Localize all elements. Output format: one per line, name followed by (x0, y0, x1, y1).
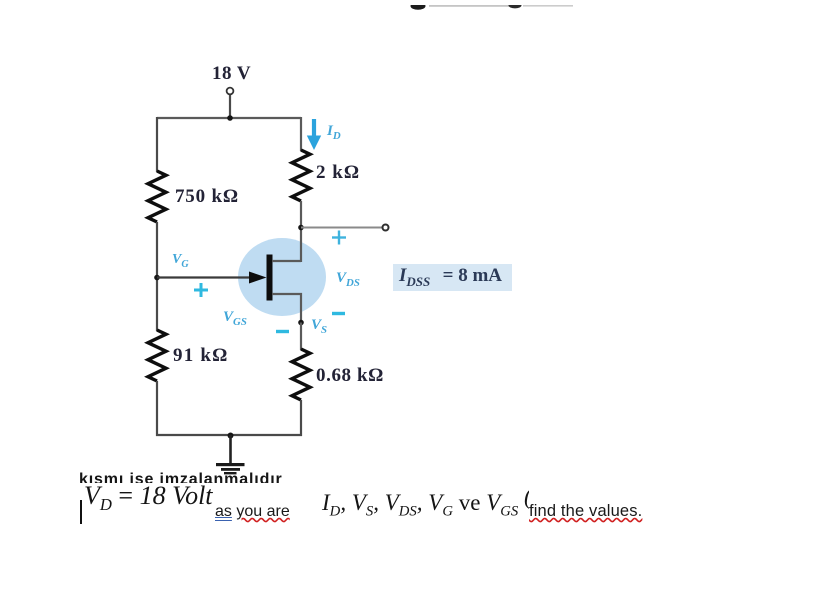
resistor R4 0.68k (292, 349, 310, 400)
plus sign at VDS (332, 231, 346, 245)
JFET halo ellipse (238, 238, 326, 316)
label ID current (327, 123, 341, 142)
label VG (172, 252, 189, 270)
wire gate lead (157, 276, 250, 278)
ground (216, 435, 245, 474)
current arrow ID (307, 119, 321, 150)
node source junction (298, 320, 304, 326)
output terminal circle (383, 225, 389, 231)
resistor R3 2k (292, 150, 310, 201)
resistor R2 91k (148, 330, 166, 381)
top edge cropped text artifact (405, 0, 580, 8)
wire top rail (157, 117, 301, 119)
label IDSS value highlighted (393, 264, 512, 291)
label 0.68 kOhm (316, 365, 384, 387)
wire bottom rail (156, 434, 302, 436)
wire drain output tap (301, 227, 382, 229)
wire right rail upper (300, 117, 302, 151)
transistor Q1 JFET bar (267, 255, 273, 301)
supply terminal circle 18V (227, 88, 234, 95)
label 91 kOhm (173, 345, 229, 367)
wire source to resistor (300, 323, 302, 351)
plus sign at VG (194, 283, 208, 297)
node ground junction (228, 433, 234, 439)
label VDS (336, 270, 360, 289)
equation ID VS VDS VG ve VGS (322, 484, 529, 521)
transistor Q1 source lead (272, 294, 301, 323)
annotation find the values (529, 502, 642, 521)
label 18 V (212, 63, 251, 85)
equation VD = 18 Volt (84, 481, 213, 515)
label 750 kOhm (175, 186, 239, 208)
annotation as you are (215, 503, 290, 521)
label VGS (223, 309, 247, 328)
node supply junction (227, 115, 233, 121)
node drain junction (298, 225, 304, 231)
clipped bold turkish text (79, 472, 294, 483)
text cursor bar (80, 500, 82, 524)
minus sign at VS (332, 312, 345, 315)
wire left rail lower (156, 381, 158, 436)
label VS (311, 317, 327, 336)
wire left rail mid (156, 222, 158, 331)
gate arrowhead (249, 272, 267, 284)
minus sign at VGS (276, 330, 289, 333)
wire left rail upper (156, 117, 158, 172)
wire drain rail (300, 201, 302, 262)
resistor R1 750k (148, 171, 166, 222)
wire right rail lower (300, 400, 302, 436)
node gate junction (154, 275, 160, 281)
transistor Q1 drain lead (272, 260, 301, 262)
label 2 kOhm (316, 162, 360, 184)
wire supply stem (229, 94, 231, 118)
